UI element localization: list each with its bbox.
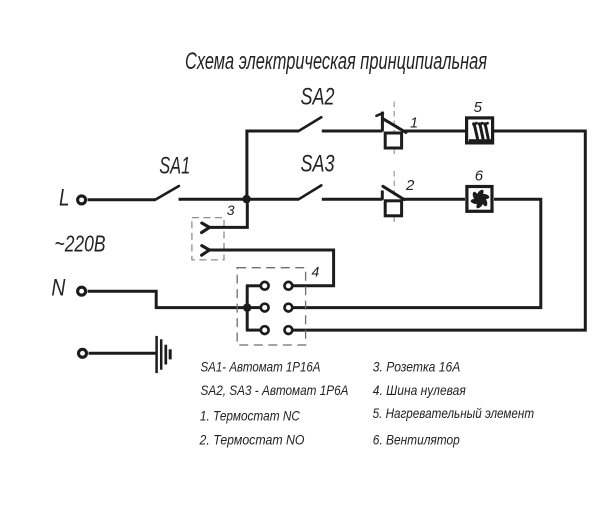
- wire thermostat 2 to fan 6: [404, 198, 466, 201]
- thermostat 2 (NO contact): [382, 186, 404, 216]
- ground symbol: [157, 336, 171, 373]
- svg-text:6: 6: [475, 168, 484, 185]
- svg-text:L: L: [59, 185, 70, 212]
- wire N to bus junction: [88, 291, 248, 307]
- bus terminal left row3: [261, 326, 269, 334]
- wire SA3 to thermostat 2: [322, 198, 383, 201]
- svg-text:2. Термостат NO: 2. Термостат NO: [199, 431, 305, 447]
- switch SA2: [299, 117, 322, 131]
- socket 3 dashed box: [192, 218, 224, 260]
- switch SA1: [155, 186, 179, 200]
- wire PE to ground: [89, 352, 157, 355]
- bus stub to left terminal row1: [246, 284, 261, 287]
- wire thermostat 1 to heater 5: [405, 130, 466, 133]
- wire junction A to SA3: [247, 198, 299, 201]
- neutral bus 4 dashed box: [237, 268, 305, 345]
- bus terminal right row3: [285, 326, 293, 334]
- wire SA2 to thermostat 1: [322, 130, 383, 133]
- wire L to SA1: [88, 198, 155, 201]
- bus left riser: [246, 286, 249, 330]
- svg-text:5: 5: [474, 99, 483, 116]
- svg-text:SA3: SA3: [301, 151, 335, 178]
- svg-text:1: 1: [410, 116, 418, 132]
- svg-text:~220В: ~220В: [55, 231, 106, 257]
- junction A: [242, 195, 250, 203]
- svg-text:N: N: [51, 275, 66, 302]
- svg-text:4. Шина нулевая: 4. Шина нулевая: [373, 382, 466, 398]
- heating element 5: [467, 118, 493, 144]
- bus stub to left terminal row3: [246, 329, 261, 332]
- bus junction dot: [243, 303, 251, 311]
- fan 6: [467, 187, 492, 212]
- terminal PE (ground lead): [79, 349, 87, 357]
- wire junction A up to SA2 branch: [247, 131, 299, 199]
- wire socket contact 2 to bus row 1: [208, 250, 334, 286]
- svg-text:5. Нагревательный элемент: 5. Нагревательный элемент: [373, 405, 535, 421]
- svg-text:3. Розетка 16А: 3. Розетка 16А: [373, 359, 461, 375]
- bus stub to left terminal row2: [247, 306, 261, 309]
- svg-text:Схема электрическая принципиал: Схема электрическая принципиальная: [185, 48, 487, 75]
- wire socket contact 1 to junction A: [208, 199, 248, 227]
- svg-text:SA2: SA2: [301, 84, 335, 111]
- terminal N: [78, 287, 86, 295]
- thermostat 2 (NO contact) dashed link: [393, 171, 395, 200]
- bus terminal left row1: [261, 282, 269, 290]
- switch SA3: [299, 185, 322, 199]
- wire heater 5 right and down to bus row 3: [292, 131, 585, 330]
- svg-text:SA2, SA3 - Автомат 1P6А: SA2, SA3 - Автомат 1P6А: [201, 382, 349, 398]
- svg-text:4: 4: [312, 264, 320, 280]
- bus terminal left row2: [261, 304, 269, 312]
- terminal L: [78, 196, 86, 204]
- thermostat 1 (NC contact) dashed link: [393, 102, 395, 133]
- svg-text:3: 3: [227, 202, 235, 218]
- bus terminal right row2: [285, 304, 293, 312]
- socket 3 contact 1: [202, 223, 210, 233]
- svg-text:1. Термостат NC: 1. Термостат NC: [200, 408, 301, 424]
- socket 3 contact 2: [202, 246, 210, 256]
- svg-text:SA1: SA1: [159, 153, 190, 180]
- svg-text:SA1- Автомат 1P16А: SA1- Автомат 1P16А: [201, 359, 321, 375]
- bus terminal right row1: [285, 282, 293, 290]
- svg-text:6. Вентилятор: 6. Вентилятор: [373, 431, 460, 447]
- thermostat 1 (NC contact): [376, 112, 406, 148]
- wire SA1 to junction A: [179, 198, 249, 201]
- svg-text:2: 2: [405, 177, 415, 194]
- wire fan 6 right and down to bus row 2: [292, 199, 541, 307]
